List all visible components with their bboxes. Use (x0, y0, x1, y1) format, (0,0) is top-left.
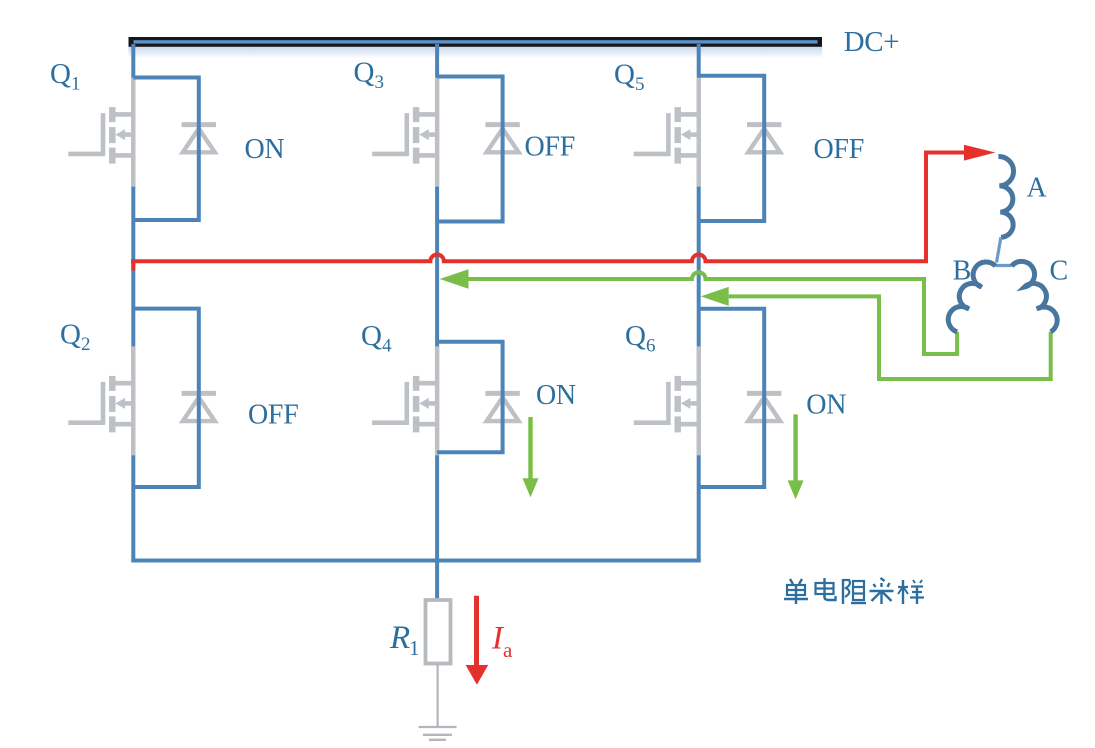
svg-text:Q: Q (354, 57, 375, 89)
svg-text:B: B (953, 256, 971, 287)
svg-text:a: a (503, 638, 513, 662)
svg-text:Q: Q (625, 320, 646, 352)
svg-text:A: A (1027, 172, 1048, 203)
svg-text:R: R (389, 620, 410, 656)
svg-text:Q: Q (50, 58, 71, 90)
svg-text:ON: ON (245, 134, 285, 165)
svg-text:Q: Q (60, 319, 81, 351)
svg-text:Q: Q (361, 320, 382, 352)
svg-text:1: 1 (409, 636, 419, 660)
svg-text:3: 3 (375, 72, 384, 93)
svg-text:OFF: OFF (814, 134, 864, 165)
svg-text:5: 5 (635, 74, 644, 95)
svg-text:1: 1 (71, 74, 80, 95)
svg-text:ON: ON (536, 380, 576, 411)
svg-text:Q: Q (614, 59, 635, 91)
svg-text:6: 6 (646, 336, 655, 357)
svg-text:2: 2 (81, 334, 90, 355)
svg-text:DC+: DC+ (844, 26, 900, 58)
svg-text:ON: ON (806, 389, 846, 420)
svg-text:4: 4 (382, 336, 392, 357)
svg-text:C: C (1050, 256, 1068, 287)
svg-text:OFF: OFF (525, 131, 575, 162)
svg-text:OFF: OFF (248, 399, 298, 430)
